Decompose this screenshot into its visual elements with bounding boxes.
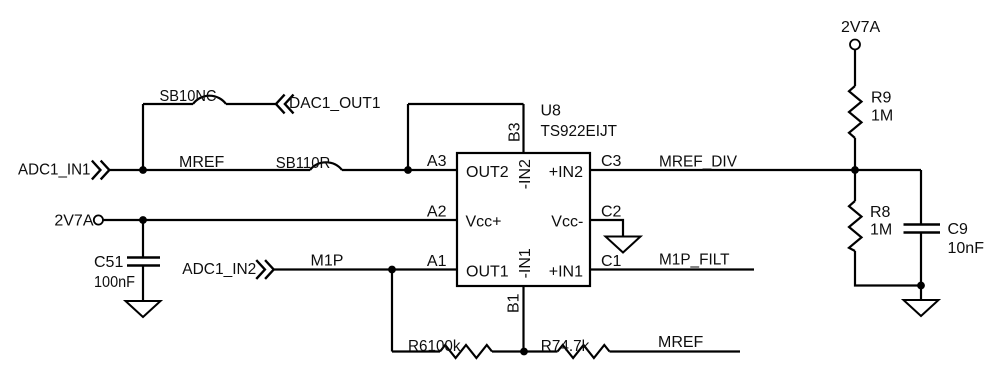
svg-text:ADC1_IN2: ADC1_IN2 [182, 261, 256, 278]
svg-text:SB10NC: SB10NC [160, 88, 217, 105]
svg-text:-IN1: -IN1 [517, 248, 534, 278]
svg-text:M1P_FILT: M1P_FILT [659, 252, 730, 269]
svg-text:A1: A1 [427, 253, 447, 270]
svg-text:10nF: 10nF [948, 240, 985, 257]
svg-text:100nF: 100nF [94, 274, 135, 291]
svg-text:MREF_DIV: MREF_DIV [659, 154, 737, 171]
svg-text:2V7A: 2V7A [841, 19, 880, 36]
svg-text:C2: C2 [601, 203, 622, 220]
svg-text:Vcc+: Vcc+ [466, 214, 502, 231]
svg-text:DAC1_OUT1: DAC1_OUT1 [289, 95, 381, 112]
svg-text:A3: A3 [427, 153, 447, 170]
svg-text:1M: 1M [870, 222, 892, 239]
svg-text:R9: R9 [871, 90, 892, 107]
svg-text:C1: C1 [601, 253, 622, 270]
svg-text:OUT1: OUT1 [466, 264, 509, 281]
svg-text:+IN1: +IN1 [549, 264, 583, 281]
svg-text:M1P: M1P [311, 253, 344, 270]
svg-text:-IN2: -IN2 [517, 159, 534, 189]
svg-text:1M: 1M [871, 108, 893, 125]
svg-text:C51: C51 [94, 254, 123, 271]
svg-text:+IN2: +IN2 [549, 164, 583, 181]
svg-text:MREF: MREF [658, 334, 704, 351]
svg-text:R6100k: R6100k [408, 338, 461, 355]
svg-text:SB110R: SB110R [276, 155, 331, 172]
svg-text:B1: B1 [506, 293, 523, 313]
svg-text:B3: B3 [507, 122, 524, 142]
svg-text:A2: A2 [427, 203, 447, 220]
svg-text:MREF: MREF [179, 154, 225, 171]
svg-text:C3: C3 [601, 153, 622, 170]
svg-text:Vcc-: Vcc- [551, 214, 583, 231]
svg-text:C9: C9 [948, 221, 969, 238]
svg-text:R74.7k: R74.7k [541, 338, 590, 355]
svg-text:OUT2: OUT2 [466, 164, 509, 181]
svg-text:U8: U8 [541, 103, 562, 120]
svg-text:ADC1_IN1: ADC1_IN1 [18, 162, 91, 179]
svg-text:2V7A: 2V7A [54, 213, 93, 230]
svg-text:TS922EIJT: TS922EIJT [541, 123, 618, 140]
svg-text:R8: R8 [870, 204, 891, 221]
